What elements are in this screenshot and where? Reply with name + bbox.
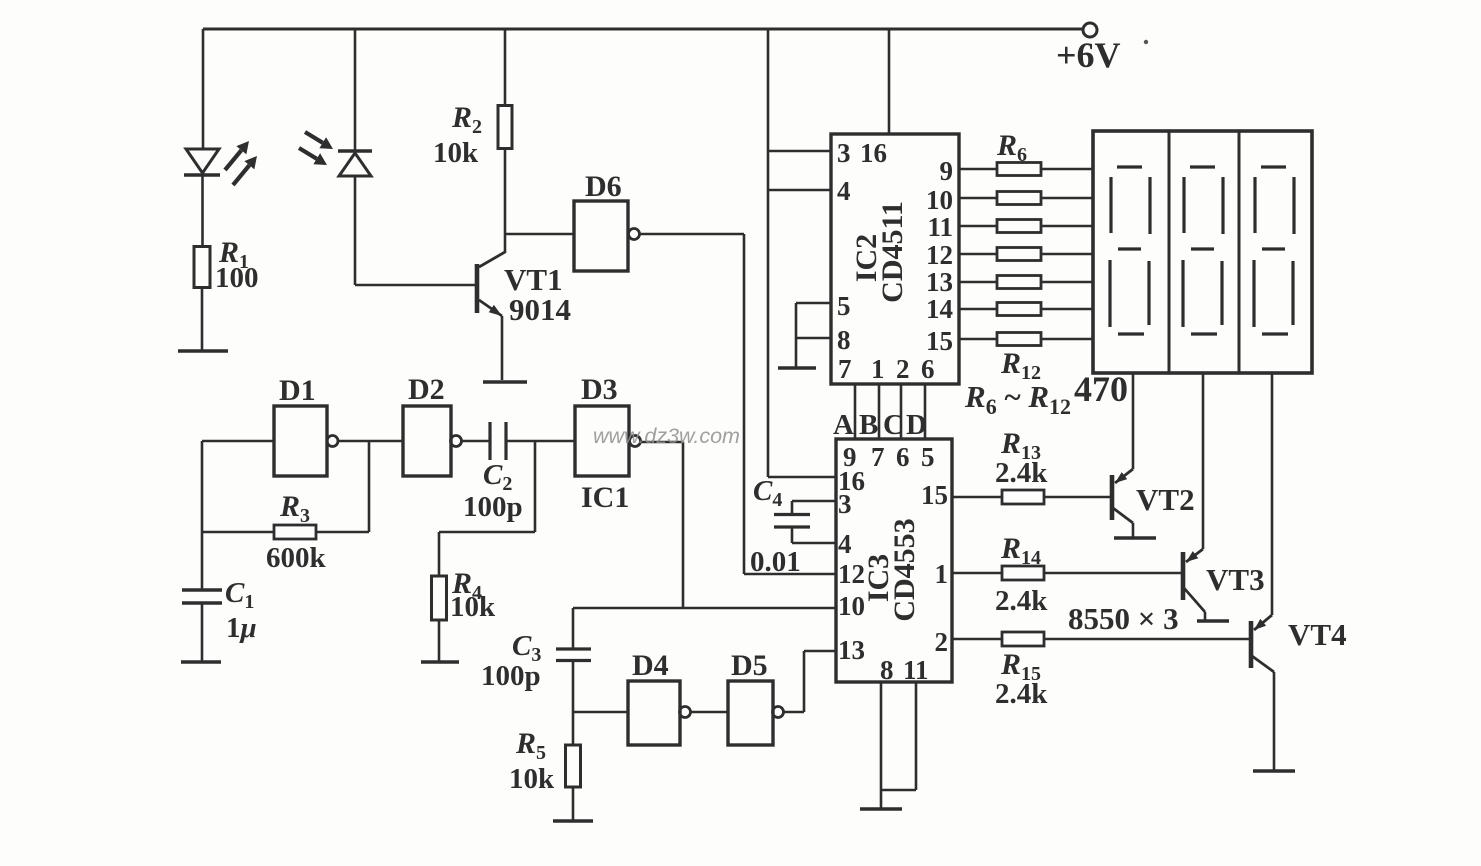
svg-text:470: 470: [1074, 369, 1128, 409]
svg-text:5: 5: [921, 442, 935, 472]
svg-text:9: 9: [940, 156, 954, 186]
svg-text:3: 3: [837, 138, 851, 168]
svg-text:2.4k: 2.4k: [995, 585, 1048, 617]
svg-text:9014: 9014: [509, 292, 571, 327]
svg-text:13: 13: [926, 267, 953, 297]
svg-text:6: 6: [921, 354, 935, 384]
svg-text:D6: D6: [585, 170, 622, 203]
svg-text:2.4k: 2.4k: [995, 678, 1048, 710]
svg-text:100: 100: [215, 262, 259, 294]
svg-text:11: 11: [927, 212, 953, 242]
svg-text:10k: 10k: [433, 137, 479, 169]
svg-text:CD4553: CD4553: [888, 518, 921, 621]
svg-text:www.dz3w.com: www.dz3w.com: [593, 424, 740, 448]
svg-text:VT3: VT3: [1206, 562, 1265, 597]
svg-text:1: 1: [871, 354, 885, 384]
svg-text:2.4k: 2.4k: [995, 457, 1048, 489]
svg-text:13: 13: [838, 635, 865, 665]
svg-text:A: A: [833, 409, 854, 441]
svg-text:11: 11: [903, 655, 929, 685]
svg-text:2: 2: [935, 627, 949, 657]
svg-text:IC1: IC1: [581, 481, 629, 514]
svg-text:100p: 100p: [481, 660, 541, 692]
svg-text:100p: 100p: [463, 491, 523, 523]
svg-text:10k: 10k: [450, 591, 496, 623]
svg-text:+6V: +6V: [1056, 35, 1121, 75]
svg-text:1: 1: [935, 559, 949, 589]
svg-text:VT4: VT4: [1288, 617, 1347, 652]
svg-text:10k: 10k: [509, 763, 555, 795]
svg-text:600k: 600k: [266, 542, 327, 574]
svg-text:B: B: [859, 409, 878, 441]
svg-text:5: 5: [837, 291, 851, 321]
svg-text:16: 16: [860, 138, 887, 168]
svg-text:12: 12: [838, 559, 865, 589]
svg-text:7: 7: [871, 442, 885, 472]
svg-text:8550 × 3: 8550 × 3: [1068, 601, 1179, 636]
svg-text:3: 3: [838, 489, 852, 519]
svg-text:D2: D2: [408, 373, 445, 406]
svg-text:6: 6: [896, 442, 910, 472]
svg-text:D4: D4: [632, 649, 669, 682]
svg-text:VT2: VT2: [1136, 482, 1195, 517]
svg-text:D1: D1: [279, 374, 316, 407]
svg-text:10: 10: [838, 591, 865, 621]
svg-text:1μ: 1μ: [226, 612, 257, 644]
svg-text:12: 12: [926, 240, 953, 270]
svg-text:D: D: [906, 409, 927, 441]
svg-text:D3: D3: [581, 373, 618, 406]
svg-text:15: 15: [921, 480, 948, 510]
svg-text:D5: D5: [731, 649, 768, 682]
svg-text:4: 4: [837, 176, 851, 206]
svg-text:CD4511: CD4511: [876, 201, 909, 303]
svg-text:C: C: [883, 409, 904, 441]
svg-text:8: 8: [880, 655, 894, 685]
svg-text:10: 10: [926, 185, 953, 215]
svg-text:7: 7: [838, 354, 852, 384]
svg-text:2: 2: [896, 354, 910, 384]
svg-text:8: 8: [837, 325, 851, 355]
svg-text:14: 14: [926, 294, 953, 324]
svg-text:4: 4: [838, 529, 852, 559]
svg-text:15: 15: [926, 326, 953, 356]
